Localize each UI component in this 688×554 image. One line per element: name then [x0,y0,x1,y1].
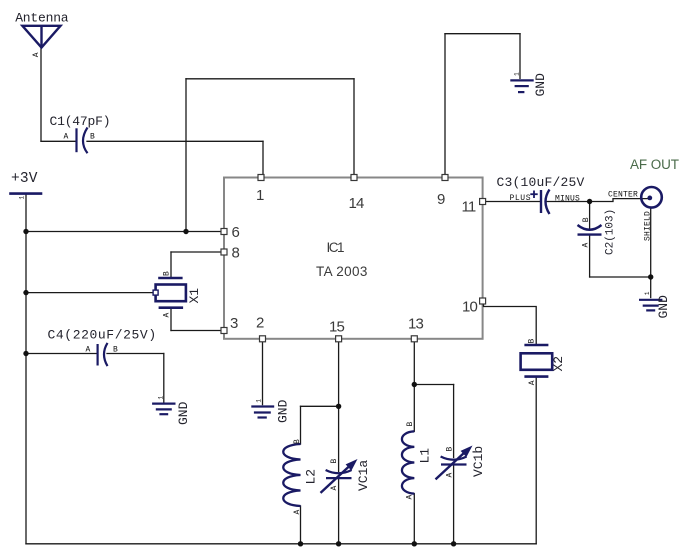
wire gnd4 stub [650,277,652,298]
svg-text:1: 1 [19,196,26,200]
crystal X2 [521,345,553,377]
wire pin9 vertical [444,34,446,178]
node rail-C4 [23,351,28,356]
IC pin square 11 [480,199,486,205]
wire pin10 to X2 [484,302,537,345]
svg-text:A: A [582,243,591,248]
node rail-X1 [23,290,28,295]
wire VC1b top vertical [453,385,455,458]
wire VC1a bottom vertical [338,479,340,544]
svg-text:C2(103): C2(103) [605,209,617,255]
power +3V symbol [9,192,42,195]
svg-text:A: A [406,495,415,500]
IC pin square 2 [260,336,266,342]
wire L2 top vertical [300,406,302,444]
wire pin13 vertical [413,339,415,432]
node C3-C2 junction [587,199,592,204]
svg-text:GND: GND [656,295,671,319]
wire L1 bottom vertical [413,494,415,544]
svg-text:1: 1 [157,396,164,400]
IC pin square 13 [411,336,417,342]
svg-text:15: 15 [329,319,345,336]
wire pin8 to X1 top [170,252,172,278]
VC1a arrow [321,466,351,493]
svg-text:B: B [113,346,118,355]
wire C4 left lead [26,353,97,355]
svg-text:11: 11 [462,199,476,216]
svg-text:MINUS: MINUS [555,194,580,203]
C3 plus sign [530,191,537,199]
svg-text:X1: X1 [187,288,202,304]
wire C1 left lead [41,140,76,142]
antenna symbol [22,26,60,48]
wire pin3 horizontal [171,330,224,332]
svg-text:Antenna: Antenna [15,10,69,25]
svg-text:1: 1 [644,291,651,295]
wire VC1b branch horizontal [414,384,453,386]
svg-text:AF OUT: AF OUT [630,157,679,172]
IC pin square 6 [221,229,227,235]
wire left supply rail [25,194,27,544]
node rail-VC1b [451,541,456,546]
wire C2 bottom horizontal [590,276,651,278]
connector center dot [647,196,652,201]
wire pin14 vertical [353,79,355,178]
svg-text:A: A [163,313,172,318]
svg-text:L1: L1 [418,448,433,464]
svg-text:A: A [330,486,339,491]
svg-text:CENTER: CENTER [608,191,638,200]
svg-text:6: 6 [232,224,240,241]
wire X1 bottom vertical [170,308,172,331]
svg-text:SHIELD: SHIELD [644,211,653,241]
svg-text:C3(10uF/25V: C3(10uF/25V [497,175,585,190]
svg-text:GND: GND [176,401,191,425]
IC U1 TA2003 body [224,178,483,339]
wire X2 bottom vertical [535,377,537,544]
wire C4 right lead [107,353,164,355]
node rail-pin6 [23,229,28,234]
wire pin8 horizontal [171,251,224,253]
svg-text:B: B [90,133,95,142]
svg-text:B: B [406,422,415,427]
svg-text:8: 8 [232,245,240,262]
wire pin15 vertical [338,339,340,472]
wire L2 branch horizontal [301,405,339,407]
wire VC1b bottom vertical [453,465,455,544]
node rail-VC1a [336,541,341,546]
variable capacitor VC1a [326,470,352,478]
IC pin square 3 [221,328,227,334]
wire L2 bottom vertical [300,506,302,544]
wire C2 top vertical [589,202,591,229]
svg-text:1: 1 [514,72,521,76]
svg-text:B: B [330,459,339,464]
VC1b arrow [436,452,466,479]
svg-text:B: B [163,271,172,276]
svg-text:1: 1 [256,187,264,204]
svg-text:TA 2003: TA 2003 [316,264,368,279]
node pin13-VC1b branch [412,382,417,387]
svg-text:A: A [293,510,302,515]
svg-text:C4(220uF/25V): C4(220uF/25V) [48,328,157,343]
wire pin6 horizontal [26,231,224,233]
wire pin11 to C3 [483,201,540,203]
svg-text:2: 2 [256,315,264,332]
svg-text:14: 14 [349,195,365,212]
X1 case pin square [153,290,158,295]
svg-text:GND: GND [276,399,291,423]
svg-text:1: 1 [256,399,263,403]
svg-text:B: B [293,439,302,444]
wire pin2 to gnd [262,339,264,405]
svg-text:A: A [528,380,537,385]
node pin6/pin14 junction [183,229,188,234]
wire C1 right lead to pin1 [87,140,263,142]
svg-text:VC1b: VC1b [471,446,486,477]
svg-text:VC1a: VC1a [356,460,371,491]
wire C4 gnd stub [163,354,165,403]
svg-text:B: B [446,447,455,452]
svg-text:B: B [582,217,591,222]
wire shield vertical [650,208,652,277]
svg-text:C1(47pF): C1(47pF) [50,114,111,129]
ground gnd2 (pin2) [251,407,274,418]
IC pin square 10 [480,298,486,304]
IC pin square 1 [258,175,264,181]
svg-text:B: B [528,339,537,344]
IC pin square 8 [221,249,227,255]
inductor L1 [402,431,414,493]
node rail-L1 [412,541,417,546]
IC pin square 14 [351,175,357,181]
crystal X1 [156,278,186,308]
svg-text:13: 13 [408,316,424,333]
inductor L2 [283,444,300,506]
svg-text:A: A [32,52,41,57]
capacitor C2 [578,225,602,235]
svg-text:9: 9 [437,191,445,208]
capacitor C1 [77,128,88,154]
ground gnd4 (shield) [639,300,662,311]
node rail-L2 [298,541,303,546]
wire top horizontal [186,78,354,80]
svg-text:+3V: +3V [11,171,38,187]
node shield-gnd junction [648,274,653,279]
svg-text:A: A [86,346,91,355]
wire top-right horizontal [445,33,520,35]
ground gnd1 (top right) [510,80,533,92]
svg-text:3: 3 [230,315,238,332]
svg-text:L2: L2 [304,469,319,485]
svg-text:10: 10 [462,299,478,316]
wire gnd1 stub [519,34,521,79]
svg-text:A: A [446,473,455,478]
wire X1 case feed [26,292,153,294]
svg-text:X2: X2 [551,356,566,372]
IC pin square 9 [442,175,448,181]
wire antenna vertical [40,48,42,142]
node pin15-L2 branch [336,404,341,409]
ground gnd3 (C4) [152,404,175,415]
wire vertical to pin6 net [185,79,187,232]
capacitor C4 [98,343,108,366]
connector AF OUT jack [641,187,662,208]
svg-text:GND: GND [533,73,548,97]
svg-text:PLUS: PLUS [510,194,532,203]
wire C3 to connector [547,199,650,202]
wire C2 bottom vertical [589,235,591,277]
variable capacitor VC1b [441,457,467,465]
wire pin1 vertical [262,141,264,177]
IC pin square 15 [336,336,342,342]
svg-text:A: A [64,133,69,142]
capacitor C3 electrolytic [541,190,550,215]
wire bottom rail [26,543,536,545]
svg-text:IC1: IC1 [327,240,345,255]
